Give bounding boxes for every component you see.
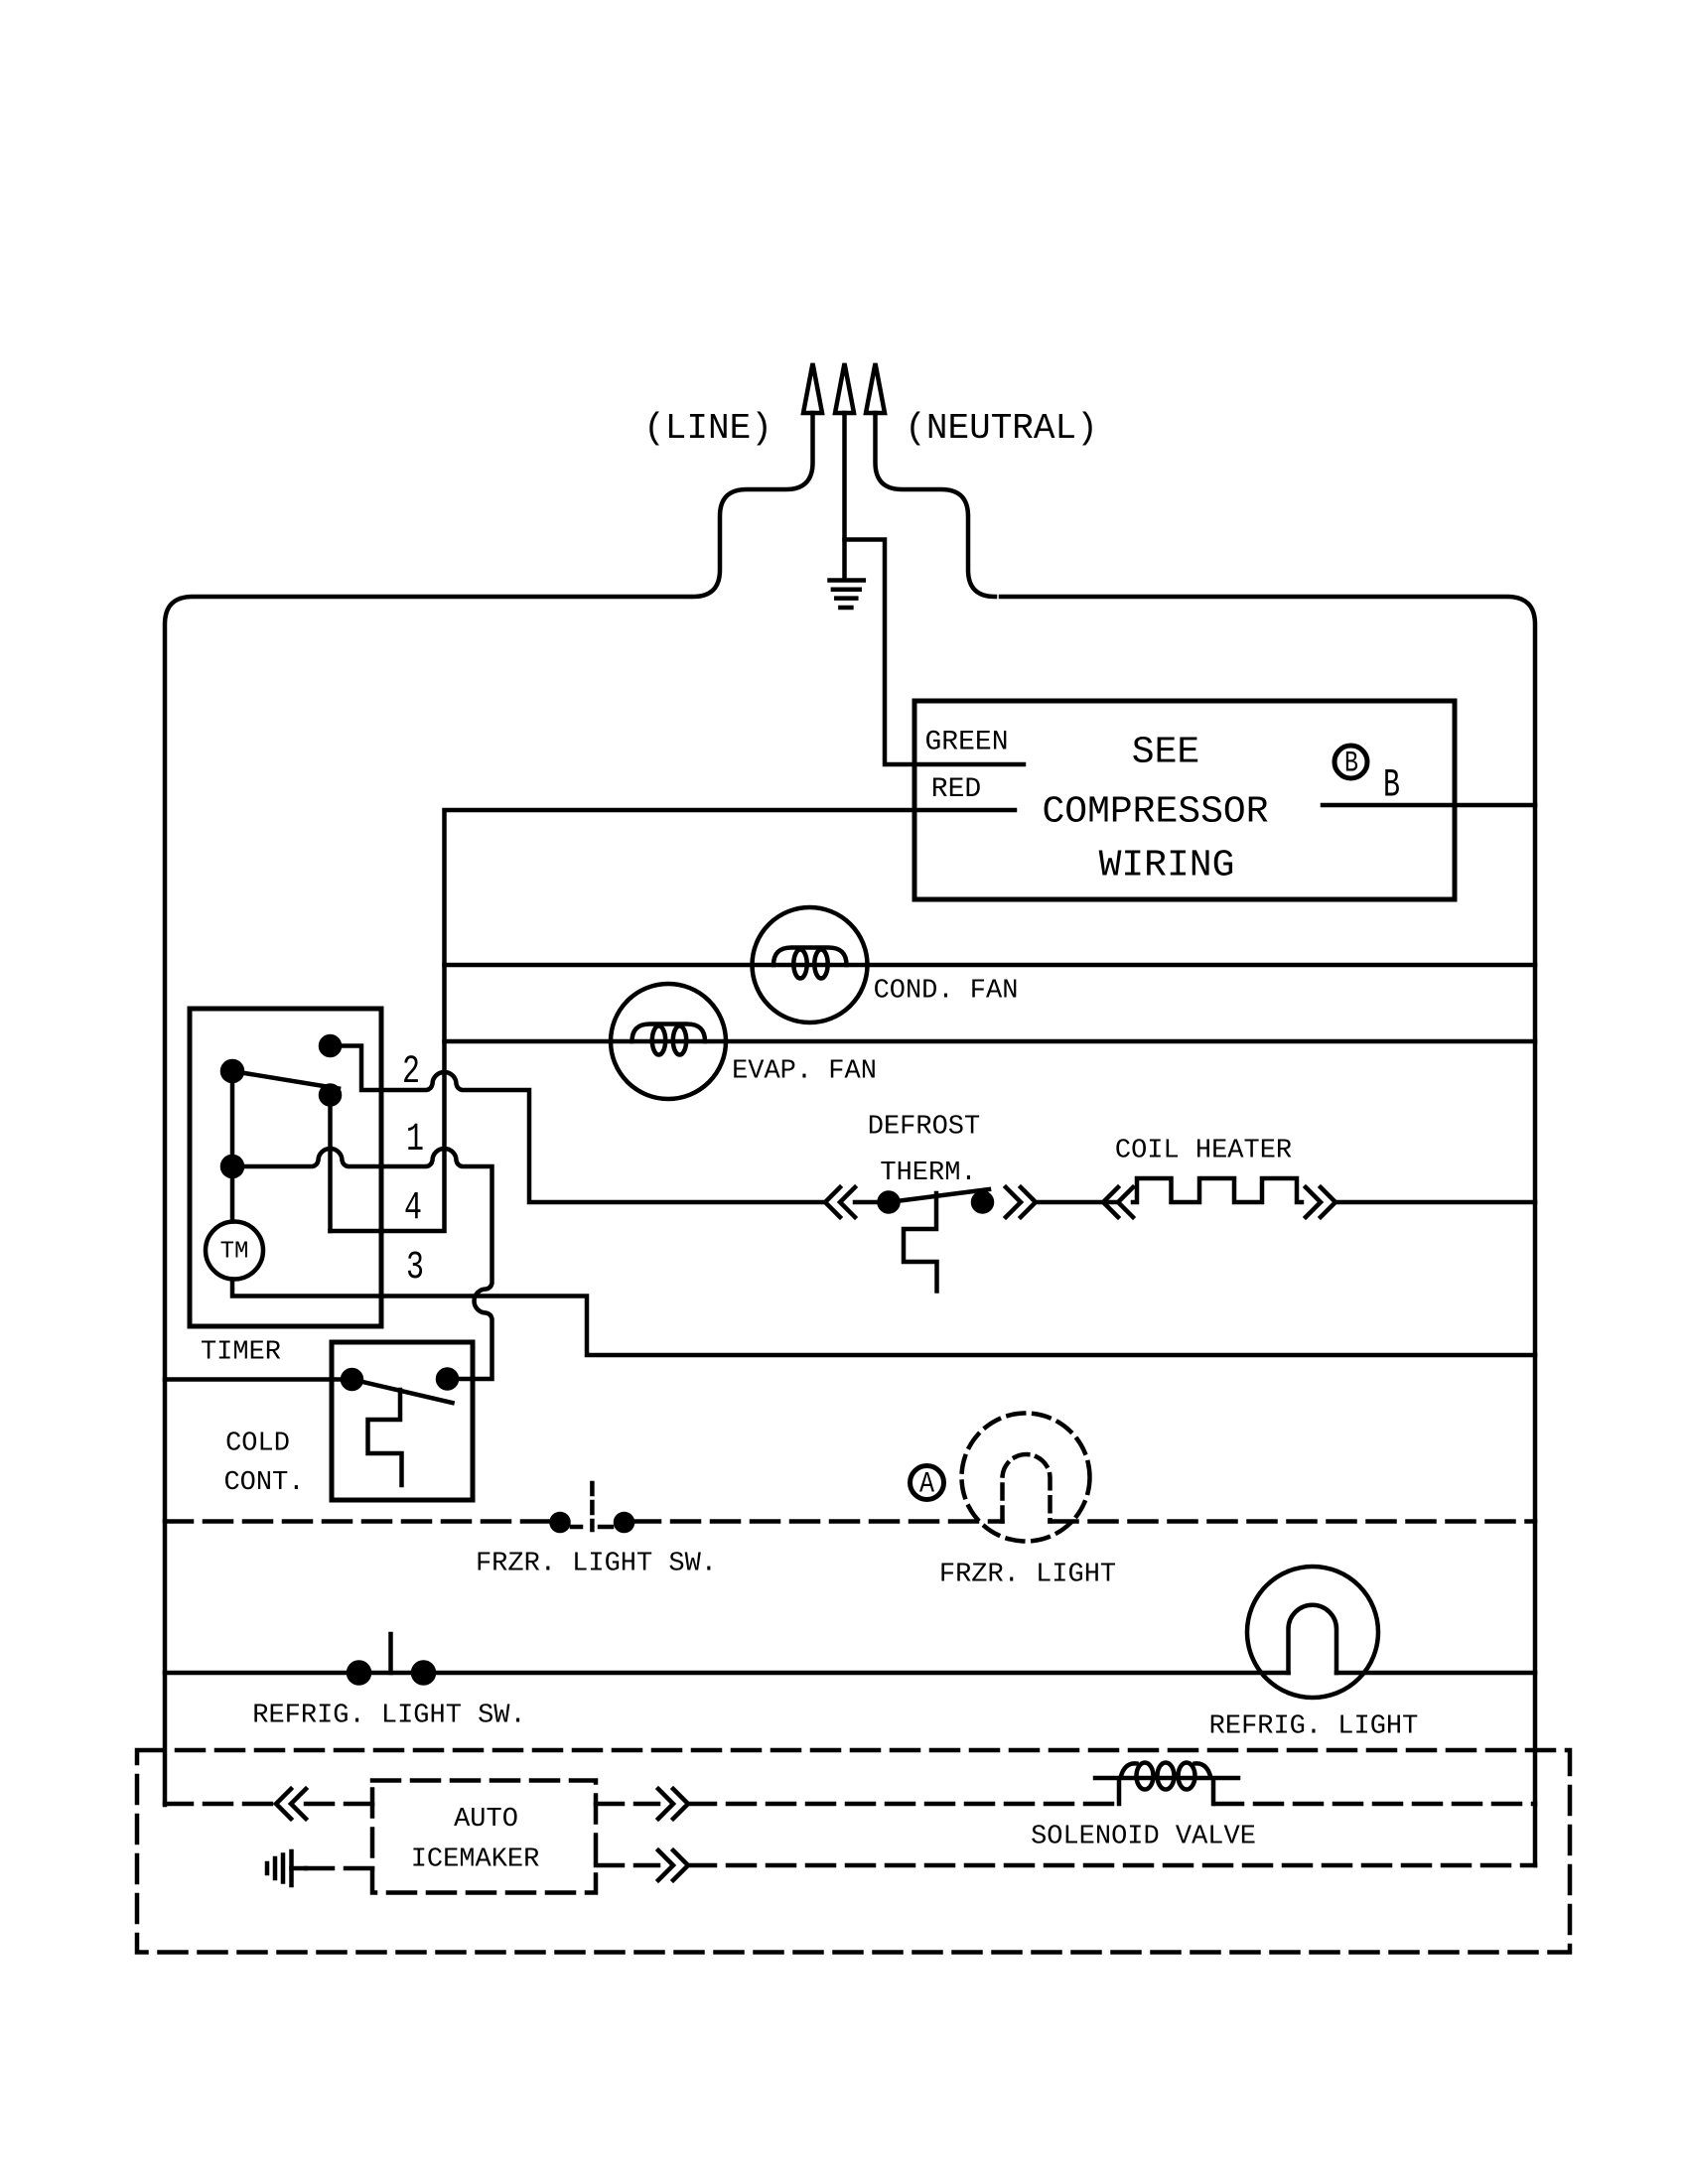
node timer terminal 2 dot	[321, 1036, 340, 1055]
wire icemaker feed dashed	[165, 1802, 372, 1807]
auto icemaker box dashed	[372, 1781, 596, 1893]
label COLD CONT.	[223, 1430, 304, 1499]
plug prong arrow ground	[835, 363, 854, 413]
wire B pin to neutral	[1323, 803, 1535, 808]
svg-text:1: 1	[406, 1118, 424, 1162]
wire ground prong down	[842, 413, 847, 580]
wire green branch to compressor	[845, 540, 915, 765]
switch freezer light sw	[552, 1483, 633, 1531]
wire icemaker ground dashed	[306, 1866, 372, 1871]
timer motor TM	[206, 1166, 263, 1280]
node B circled	[1334, 746, 1367, 781]
ground icemaker	[267, 1851, 306, 1885]
wire neutral prong S-curve	[876, 413, 996, 597]
motor COND. FAN	[753, 907, 868, 1023]
svg-text:COIL HEATER: COIL HEATER	[1115, 1137, 1292, 1166]
svg-text:EVAP. FAN: EVAP. FAN	[732, 1057, 877, 1087]
wire defrost to coil heater	[1036, 1200, 1118, 1205]
compressor box	[914, 701, 1455, 899]
connector chevrons coil heater left	[1103, 1187, 1133, 1217]
label SEE COMPRESSOR WIRING	[1042, 732, 1268, 887]
wire chevron to defrost dot	[855, 1200, 889, 1205]
svg-text:GREEN: GREEN	[924, 728, 1008, 758]
svg-text:(NEUTRAL): (NEUTRAL)	[905, 408, 1097, 449]
wire GREEN pin	[914, 762, 1024, 767]
connector chevrons icemaker feed	[276, 1789, 306, 1819]
connector chevrons defrost left	[825, 1187, 855, 1217]
connector chevrons icemaker out top	[658, 1789, 688, 1819]
cold control bimetal step	[368, 1390, 402, 1485]
wire left line bus border	[165, 597, 689, 1805]
wire timer common vertical	[230, 1071, 235, 1166]
wire solenoid to neutral dashed	[1215, 1802, 1535, 1807]
connector chevrons defrost right	[1006, 1187, 1036, 1217]
node cold control right dot	[438, 1370, 457, 1389]
svg-text:REFRIG. LIGHT SW.: REFRIG. LIGHT SW.	[252, 1702, 525, 1731]
svg-text:COMPRESSOR: COMPRESSOR	[1042, 791, 1268, 834]
connector chevrons coil heater right	[1306, 1187, 1335, 1217]
svg-text:COLD: COLD	[225, 1430, 290, 1459]
svg-text:A: A	[919, 1468, 934, 1502]
svg-text:RED: RED	[931, 774, 981, 805]
switch defrost therm arm	[889, 1189, 989, 1202]
timer box	[190, 1009, 381, 1326]
label AUTO ICEMAKER	[411, 1805, 540, 1875]
svg-text:2: 2	[402, 1050, 420, 1095]
icemaker enclosure dashed box	[137, 1750, 1570, 1953]
wire freezer light dashed row	[165, 1519, 1535, 1524]
svg-text:WIRING: WIRING	[1099, 845, 1235, 887]
wire icemaker top output dashed	[596, 1802, 1119, 1807]
node cold control left dot	[343, 1370, 361, 1389]
node defrost therm left dot	[880, 1193, 899, 1212]
wire evaporator fan row	[445, 1039, 1536, 1044]
plug prong arrow NEUTRAL	[866, 363, 885, 413]
wire coil heater to neutral	[1335, 1200, 1535, 1205]
svg-text:CONT.: CONT.	[223, 1468, 304, 1498]
motor EVAP. FAN	[611, 984, 726, 1099]
switch timer arm	[232, 1071, 339, 1089]
switch cold control arm	[352, 1380, 453, 1404]
label DEFROST THERM.	[868, 1113, 980, 1189]
node A circled	[911, 1466, 944, 1502]
wire line bus to cold control	[165, 1377, 342, 1382]
cold control box	[332, 1342, 473, 1500]
svg-text:B: B	[1383, 764, 1400, 809]
switch refrig light sw	[349, 1634, 434, 1684]
lamp FRZR. LIGHT	[962, 1414, 1090, 1542]
ground symbol power plug	[830, 581, 864, 609]
wire icemaker bottom output dashed	[596, 1863, 1535, 1868]
svg-text:THERM.: THERM.	[880, 1159, 976, 1188]
node defrost therm right dot	[973, 1193, 992, 1212]
svg-text:SOLENOID VALVE: SOLENOID VALVE	[1031, 1823, 1256, 1852]
wire timer terminal 2	[331, 1046, 826, 1203]
wire timer terminal 4	[328, 1095, 333, 1231]
wire RED pin to timer	[331, 810, 1016, 1231]
wire refrigerator light row	[165, 1671, 1535, 1676]
wire timer terminal 1	[232, 1149, 492, 1379]
resistor coil heater element	[1133, 1178, 1302, 1202]
plug prong arrow LINE	[803, 363, 822, 413]
svg-text:AUTO: AUTO	[454, 1805, 518, 1835]
svg-text:4: 4	[404, 1186, 422, 1231]
svg-text:DEFROST: DEFROST	[868, 1113, 980, 1143]
svg-text:FRZR. LIGHT: FRZR. LIGHT	[939, 1561, 1116, 1590]
node timer terminal 4 dot	[321, 1086, 340, 1105]
svg-text:FRZR. LIGHT SW.: FRZR. LIGHT SW.	[476, 1550, 717, 1579]
wire timer terminal 3	[232, 1280, 1535, 1356]
defrost therm bimetal step	[904, 1193, 937, 1292]
lamp REFRIG. LIGHT	[1247, 1567, 1378, 1698]
svg-text:(LINE): (LINE)	[643, 408, 772, 449]
svg-text:3: 3	[406, 1246, 424, 1291]
svg-text:REFRIG. LIGHT: REFRIG. LIGHT	[1209, 1712, 1419, 1742]
node timer terminal 1 dot	[222, 1157, 242, 1176]
svg-text:SEE: SEE	[1132, 732, 1199, 774]
svg-text:COND. FAN: COND. FAN	[874, 977, 1019, 1007]
node timer common dot	[222, 1061, 242, 1081]
svg-text:TIMER: TIMER	[201, 1338, 281, 1368]
connector chevrons icemaker out bottom	[658, 1850, 688, 1880]
wire line prong S-curve	[693, 413, 813, 597]
wire condenser fan row	[445, 963, 1536, 968]
wire right neutral bus border	[1001, 597, 1535, 1865]
svg-text:B: B	[1344, 748, 1358, 781]
svg-text:ICEMAKER: ICEMAKER	[411, 1845, 540, 1875]
solenoid valve coil	[1095, 1763, 1238, 1805]
svg-text:TM: TM	[220, 1239, 249, 1266]
